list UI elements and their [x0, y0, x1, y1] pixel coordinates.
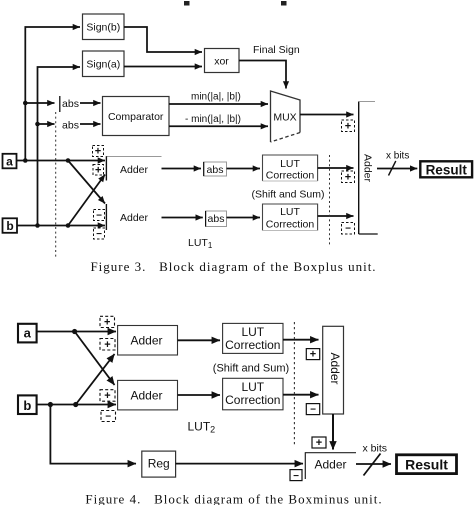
wire: abs1 to comparator — [80, 102, 101, 104]
Result box (fig4) — [397, 455, 457, 474]
wire: adder2 to abs4 — [162, 217, 203, 219]
wire: adder1 to abs — [162, 168, 202, 170]
svg-text:Result: Result — [426, 163, 468, 178]
wire: b to Reg (fig4) — [50, 405, 136, 464]
Comparator box — [103, 97, 170, 136]
Adder box 2 (fig4) — [118, 380, 178, 410]
svg-text:LUT1: LUT1 — [188, 237, 213, 250]
wire: adder2 to LUT2 (fig4) — [178, 394, 221, 396]
svg-text:Adder: Adder — [120, 212, 149, 224]
wire: a to adder1 — [17, 158, 106, 163]
input port a (fig4) — [18, 324, 37, 343]
Adder box 1 (fig4) — [118, 326, 178, 356]
svg-text:+: + — [345, 121, 351, 133]
input port a — [3, 154, 17, 169]
wire: a cross to adder2 — [68, 161, 105, 204]
sign box + (mux input) — [342, 120, 355, 133]
svg-text:x bits: x bits — [386, 151, 409, 162]
wire: vertical adder to final adder (fig4) — [332, 414, 334, 450]
input port b (fig4) — [18, 395, 37, 414]
xor gate U1 — [205, 49, 240, 73]
bus width slash (fig4) — [364, 454, 381, 476]
sign box + final adder top (fig4) — [312, 437, 326, 449]
svg-text:−: − — [345, 224, 351, 235]
wire: comparator min output to MUX — [169, 103, 268, 105]
svg-text:Reg: Reg — [148, 457, 170, 471]
wire: abs4 to LUT2 — [227, 217, 261, 219]
Result box — [420, 161, 472, 177]
LUT Correction box 2 — [263, 204, 318, 231]
svg-text:+: + — [316, 437, 322, 449]
input port b — [3, 218, 18, 233]
cropped text descender mark left — [184, 1, 190, 6]
final Adder box (fig4) — [305, 452, 356, 479]
wire: LUT1 to vertical adder (fig4) — [283, 339, 319, 341]
Sign(b) box — [83, 14, 125, 40]
wire: b cross to adder1 (fig4) — [76, 354, 115, 405]
LUT Correction box 2 (fig4) — [223, 378, 283, 410]
sign box + (lut1 input) — [342, 171, 355, 184]
sign box + adder1 in1 (fig4) — [100, 316, 115, 328]
svg-text:Correction: Correction — [266, 219, 315, 231]
wire: comparator -min output to MUX — [169, 125, 268, 127]
svg-text:−: − — [96, 211, 102, 222]
sign box + adder1 in1 — [93, 146, 104, 158]
cropped text descender mark right — [281, 1, 287, 6]
wire: abs3 to LUT1 — [227, 168, 261, 170]
svg-text:Result: Result — [405, 457, 448, 473]
svg-text:xor: xor — [214, 56, 229, 68]
wire: LUT2 to adder — [318, 215, 354, 217]
svg-text:- min(|a|, |b|): - min(|a|, |b|) — [185, 114, 241, 125]
Adder box 2 — [106, 204, 148, 230]
adder U2 (vertical) — [359, 102, 378, 235]
Reg box — [142, 451, 176, 477]
svg-text:Comparator: Comparator — [108, 111, 164, 123]
svg-text:a: a — [24, 326, 32, 341]
svg-text:Adder: Adder — [362, 154, 374, 183]
svg-text:b: b — [23, 398, 31, 413]
wire: vertical bus from b to Sign(a) — [38, 67, 81, 226]
svg-text:+: + — [104, 390, 110, 402]
svg-text:LUT: LUT — [280, 206, 300, 218]
svg-text:+: + — [104, 317, 110, 329]
boundary dashed line right — [329, 155, 331, 247]
svg-text:LUT: LUT — [241, 325, 264, 339]
sign box - adder2 in1 — [94, 210, 105, 222]
wire: b cross to adder1 — [68, 175, 105, 226]
svg-text:−: − — [293, 471, 299, 482]
wire: final adder to result (fig4) — [356, 463, 391, 465]
svg-text:abs: abs — [207, 164, 224, 176]
svg-text:−: − — [96, 229, 102, 240]
adder U3 (vertical, fig4) — [323, 326, 344, 414]
svg-text:Figure 3. Block diagram of t: Figure 3. Block diagram of the Boxplus u… — [90, 259, 376, 274]
sign box + vertical adder in1 (fig4) — [306, 349, 319, 361]
wire: bus junction to abs2 — [35, 122, 54, 127]
svg-text:Correction: Correction — [266, 170, 315, 182]
LUT Correction box 1 — [263, 155, 318, 182]
svg-text:LUT: LUT — [280, 158, 300, 170]
abs block 4 — [206, 211, 227, 227]
svg-text:+: + — [345, 172, 351, 184]
wire: vertical bus from a to Sign(b) — [25, 27, 80, 161]
svg-text:Sign(a): Sign(a) — [86, 59, 120, 71]
svg-text:+: + — [95, 146, 101, 158]
svg-text:Adder: Adder — [120, 164, 149, 176]
Sign(a) box — [83, 51, 125, 77]
svg-text:Adder: Adder — [130, 334, 162, 348]
svg-text:abs: abs — [62, 98, 79, 110]
svg-text:x bits: x bits — [363, 443, 388, 455]
svg-text:+: + — [104, 339, 110, 351]
wire: xor to MUX select — [239, 61, 286, 89]
sign box + adder2 in1 (fig4) — [100, 390, 115, 402]
MUX — [271, 91, 301, 142]
wire: LUT2 to vertical adder (fig4) — [283, 394, 319, 396]
wire: LUT1 to adder — [318, 167, 354, 169]
sign box - final adder left (fig4) — [290, 470, 302, 482]
sign box + adder1 in2 (fig4) — [100, 339, 115, 352]
svg-text:Correction: Correction — [225, 393, 280, 407]
svg-text:abs: abs — [208, 213, 225, 225]
wire: b to adder2 — [17, 223, 105, 228]
sign box - vertical adder in2 (fig4) — [306, 404, 319, 416]
wire: Sign(b) to xor — [124, 27, 202, 52]
svg-text:−: − — [310, 405, 316, 416]
svg-text:Adder: Adder — [314, 458, 346, 472]
svg-text:(Shift and Sum): (Shift and Sum) — [252, 189, 325, 201]
svg-text:LUT: LUT — [241, 380, 264, 394]
abs block 1 — [60, 96, 79, 112]
svg-text:abs: abs — [62, 120, 79, 132]
boundary dashed line (fig4) — [293, 322, 295, 445]
svg-text:Adder: Adder — [130, 389, 162, 403]
sign box - (lut2 input) — [342, 223, 355, 235]
bus width slash — [389, 161, 396, 176]
svg-text:(Shift and Sum): (Shift and Sum) — [213, 363, 289, 375]
boundary dashed line left — [55, 112, 57, 258]
wire: Sign(a) to xor — [124, 66, 202, 68]
svg-text:b: b — [6, 219, 13, 233]
svg-text:MUX: MUX — [273, 112, 296, 124]
svg-text:LUT2: LUT2 — [188, 420, 216, 435]
abs block 3 — [204, 162, 227, 176]
svg-text:a: a — [6, 155, 13, 169]
svg-text:Adder: Adder — [328, 352, 342, 384]
wire: Reg to final adder (fig4) — [176, 463, 303, 465]
svg-text:Sign(b): Sign(b) — [86, 22, 120, 34]
wire: adder output to result — [377, 168, 417, 170]
svg-text:+: + — [310, 349, 316, 361]
svg-text:Figure 4. Block diagram of t: Figure 4. Block diagram of the Boxminus … — [85, 492, 382, 505]
Adder box 1 — [106, 156, 161, 180]
svg-text:Correction: Correction — [225, 338, 280, 352]
wire: b to adder2 (fig4) — [37, 402, 116, 407]
wire: bus junction to abs1 — [23, 101, 55, 106]
sign box + adder1 in2 — [93, 165, 104, 177]
LUT Correction box 1 (fig4) — [223, 323, 283, 353]
wire: adder1 to LUT1 (fig4) — [178, 339, 221, 341]
wire: abs2 to comparator — [80, 123, 101, 125]
svg-text:Final Sign: Final Sign — [253, 44, 300, 56]
wire: a cross to adder2 (fig4) — [75, 332, 115, 386]
sign box - adder2 in2 — [94, 228, 105, 240]
wire: MUX output to adder — [300, 114, 354, 116]
svg-text:+: + — [95, 165, 101, 177]
svg-text:−: − — [105, 412, 111, 423]
svg-text:min(|a|, |b|): min(|a|, |b|) — [191, 92, 241, 103]
wire: a to adder1 (fig4) — [37, 329, 116, 334]
sign box - adder2 in2 (fig4) — [101, 411, 116, 423]
